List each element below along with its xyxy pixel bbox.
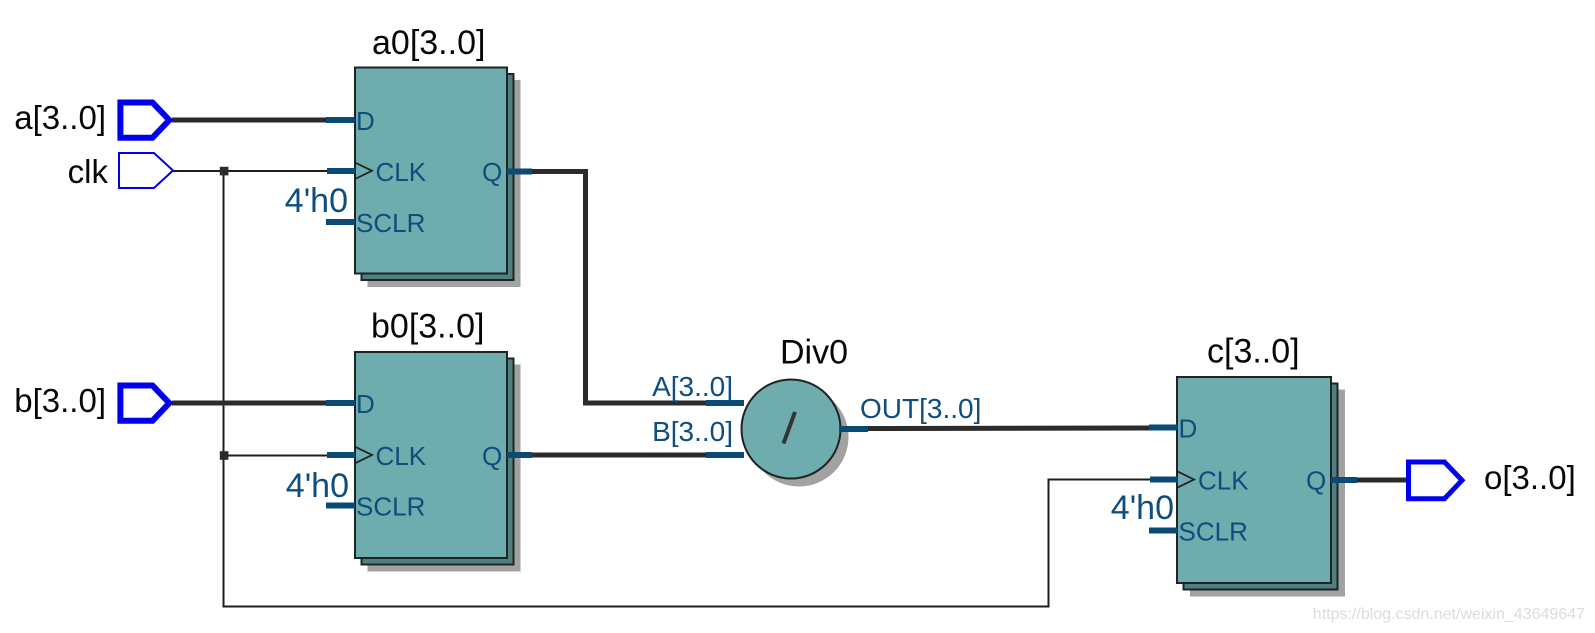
svg-text:Q: Q (1306, 466, 1326, 496)
shadow (1190, 390, 1345, 597)
pin stub Q (1331, 477, 1357, 483)
svg-text:B[3..0]: B[3..0] (652, 416, 733, 447)
input port clk (68, 153, 173, 190)
input port a[3..0] (14, 99, 169, 138)
svg-text:CLK: CLK (376, 441, 427, 471)
svg-text:CLK: CLK (376, 157, 427, 187)
pin stub SCLR (326, 503, 355, 509)
pin stub CLK (1150, 477, 1178, 483)
svg-text:4'h0: 4'h0 (286, 467, 349, 505)
back layer (1184, 384, 1338, 590)
wire bus a to a0.D (172, 118, 330, 123)
pin stub D (326, 400, 355, 406)
slash symbol (784, 412, 796, 444)
wire bus c.Q to port o (1356, 478, 1410, 483)
wire bus a0.Q to Div0.A (530, 172, 708, 404)
svg-text:SCLR: SCLR (356, 492, 425, 522)
svg-text:b0[3..0]: b0[3..0] (371, 308, 484, 346)
svg-text:c[3..0]: c[3..0] (1207, 333, 1300, 371)
svg-text:https://blog.csdn.net/weixin_4: https://blog.csdn.net/weixin_43649647 (1313, 606, 1585, 623)
register b0[3..0] (286, 308, 532, 572)
svg-text:Q: Q (482, 157, 502, 187)
body (355, 68, 507, 274)
svg-text:D: D (1179, 414, 1198, 444)
svg-text:D: D (356, 106, 375, 136)
clk edge triangle (1177, 471, 1194, 488)
pin stub SCLR (1149, 528, 1178, 534)
pin stub OUT (839, 426, 868, 432)
clk edge triangle (355, 163, 372, 180)
svg-text:Q: Q (482, 441, 502, 471)
svg-text:a[3..0]: a[3..0] (14, 99, 106, 136)
svg-text:D: D (356, 389, 375, 419)
wire clk to a0 CLK (173, 170, 332, 172)
wire bus b0.Q to Div0.B (530, 453, 708, 458)
shadow (750, 388, 849, 487)
svg-text:b[3..0]: b[3..0] (14, 382, 106, 419)
clk edge triangle (355, 447, 372, 464)
svg-text:A[3..0]: A[3..0] (652, 371, 733, 402)
pin stub Q (507, 169, 532, 175)
pin stub D (326, 117, 355, 123)
register a0[3..0] (285, 24, 532, 287)
back layer (362, 359, 514, 565)
svg-text:o[3..0]: o[3..0] (1484, 459, 1576, 496)
wire bus Div0.OUT to c.D (866, 426, 1152, 432)
pin stub D (1149, 425, 1178, 431)
back layer (362, 74, 514, 280)
svg-text:a0[3..0]: a0[3..0] (372, 24, 485, 62)
pin stub CLK (327, 168, 355, 174)
pin stub B (706, 452, 744, 458)
svg-text:clk: clk (68, 153, 109, 190)
wire bus b to b0.D (172, 401, 330, 406)
shadow (368, 365, 521, 572)
pin stub Q (507, 452, 532, 458)
divider Div0 (652, 334, 981, 487)
svg-text:SCLR: SCLR (1179, 517, 1248, 547)
pin stub SCLR (326, 219, 355, 225)
svg-text:CLK: CLK (1198, 466, 1249, 496)
register c[3..0] (1111, 333, 1357, 597)
svg-text:SCLR: SCLR (356, 208, 425, 238)
junction clk/b0 (220, 451, 229, 460)
svg-text:Div0: Div0 (780, 334, 848, 372)
wire clk vertical trunk (224, 171, 1153, 607)
pin stub A (706, 400, 744, 406)
svg-text:4'h0: 4'h0 (1111, 489, 1174, 527)
shadow (368, 80, 521, 287)
pin stub CLK (327, 452, 355, 458)
wire clk branch to b0 CLK (226, 455, 332, 457)
body (355, 352, 507, 558)
body (742, 380, 841, 479)
input port b[3..0] (14, 382, 169, 421)
svg-text:OUT[3..0]: OUT[3..0] (860, 393, 981, 424)
body (1177, 377, 1331, 583)
junction clk/a0 (220, 167, 229, 176)
output port o[3..0] (1409, 459, 1576, 499)
svg-text:4'h0: 4'h0 (285, 182, 348, 220)
